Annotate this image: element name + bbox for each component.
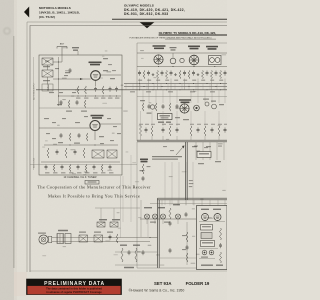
capacitor C13 <box>170 71 172 73</box>
sync section wire <box>140 218 196 220</box>
red print-through tint <box>14 272 27 296</box>
resistor R4 <box>68 100 70 108</box>
interstage labels <box>182 235 186 236</box>
resistor R12 <box>166 71 168 79</box>
left-pointing index triangle <box>24 7 29 18</box>
capacitor C9d <box>93 165 95 167</box>
resistor R1 <box>77 86 79 94</box>
resistor R19c <box>169 103 171 111</box>
note arrow <box>176 147 183 155</box>
power wires <box>199 221 225 223</box>
boost line double 2 <box>137 141 227 143</box>
capacitor C27 <box>142 176 144 178</box>
video vertical stubs from bus <box>142 90 144 103</box>
capacitor C34 <box>185 212 187 214</box>
capacitor C4 <box>76 100 78 102</box>
capacitor C9 <box>45 165 47 167</box>
svg-text:in advance of regular PHOTOFAC: in advance of regular PHOTOFACT Coverage <box>46 290 102 294</box>
tube V1 label RF AMP 6BQ7A <box>89 62 102 64</box>
schematic border inner <box>30 26 227 273</box>
vertical bus pair right <box>185 142 187 200</box>
wire IF rail 2 <box>137 66 227 68</box>
capacitor C18 <box>224 71 226 73</box>
resistor R3 <box>102 86 104 94</box>
audio lower capacitor C41 <box>128 250 130 252</box>
video lower labels row <box>139 124 143 125</box>
B+ bus 3 <box>36 89 227 91</box>
picture tube note text <box>152 156 182 157</box>
tuner bottom labels row <box>45 172 50 173</box>
capacitor C7 <box>56 150 58 152</box>
tuner inner left rail <box>58 57 60 106</box>
wires from tuner down <box>120 176 122 238</box>
video wires vertical lower <box>140 111 142 126</box>
capacitor C16 <box>206 71 208 73</box>
IF transformer T1 can <box>209 56 222 65</box>
capacitor C19b <box>162 104 164 106</box>
resistor R34 <box>186 253 188 262</box>
coil L7 <box>212 104 217 109</box>
horizontal wire below bus <box>150 203 227 205</box>
bus vertical drop wires <box>139 79 141 90</box>
resistor R11 <box>157 71 159 79</box>
tuner misc value labels <box>45 61 49 62</box>
capacitor C14 <box>184 71 186 73</box>
resistor R18 <box>142 103 144 111</box>
header rule <box>112 18 227 20</box>
right mid value labels <box>194 146 198 147</box>
resistor R27 <box>142 164 144 174</box>
vertical wire x131 <box>130 155 132 222</box>
capacitor C23 <box>176 128 178 130</box>
capacitor C22 <box>162 128 164 130</box>
page background paper <box>0 0 227 300</box>
capacitor C9e <box>109 165 111 167</box>
tube V4 label <box>188 46 200 48</box>
audio chain labels <box>79 232 86 233</box>
paper grain overlay <box>0 0 1 1</box>
B+ bus 1 <box>124 83 227 85</box>
B+ bus 2 <box>124 86 227 88</box>
video right labels <box>203 99 209 100</box>
resistor R4b <box>84 100 86 108</box>
capacitor C10 <box>139 71 141 73</box>
resistor R23 <box>190 126 192 136</box>
ground GND3 <box>197 73 199 74</box>
tuner input coil L1 <box>42 58 53 65</box>
audio lower resistor R41 <box>121 248 123 262</box>
power choke <box>201 233 212 239</box>
rectifier tube V7 <box>202 214 209 221</box>
svg-text:The data contained in this fol: The data contained in this folder is pub… <box>46 287 102 291</box>
video section small tube <box>150 105 154 109</box>
resistor R9b <box>69 165 71 172</box>
wire V2 plate right <box>100 123 121 125</box>
schematic border outer <box>27 22 227 272</box>
capacitor C31 <box>153 214 158 219</box>
capacitor C25 <box>211 128 213 130</box>
balun label <box>72 47 79 48</box>
audio label <box>58 230 68 231</box>
sync labels <box>144 207 152 208</box>
audio cap C40 <box>109 235 111 237</box>
bus tick marks <box>125 84 127 90</box>
tuner lower bus wire <box>44 144 118 146</box>
wire V1 grid <box>53 78 91 80</box>
capacitor C30 <box>145 214 150 219</box>
audio lower labels <box>120 245 127 246</box>
video rail wire <box>137 96 227 98</box>
coil L4 label <box>170 47 177 48</box>
rectifier tube V8 <box>214 214 221 221</box>
tube V3 1st video IF <box>154 55 163 64</box>
IF output box <box>85 180 99 184</box>
power supply enclosure <box>197 206 228 270</box>
resistor R13 <box>179 71 181 79</box>
capacitor C15 <box>193 71 195 73</box>
video mid labels <box>140 100 145 101</box>
audio resistor R40 <box>116 234 118 243</box>
power resistor R51 <box>220 252 222 263</box>
tuner mid bus wire <box>59 95 122 97</box>
sync right vertical wires <box>164 162 166 205</box>
capacitor C2b <box>116 87 118 89</box>
resistor R14 <box>188 71 190 79</box>
left column value label <box>140 170 145 171</box>
svg-text:©Howard W. Sams & Co., Inc. 19: ©Howard W. Sams & Co., Inc. 1950 <box>129 288 185 292</box>
tuner bottom bus wire <box>41 161 120 163</box>
antenna symbol <box>57 46 67 48</box>
resistor R33 <box>186 232 188 242</box>
capacitor C1 <box>95 87 97 89</box>
bus junction dots <box>139 83 140 84</box>
coil L6 <box>205 102 209 106</box>
svg-text:FOLDER 19: FOLDER 19 <box>186 281 210 286</box>
resistor R10 <box>143 71 145 79</box>
resistor R15 <box>202 71 204 79</box>
wire V2 grid left <box>39 127 90 129</box>
fine tuning box <box>107 150 117 158</box>
capacitor C19d <box>176 104 178 106</box>
resistor R9 <box>53 165 55 172</box>
resistor R21 <box>151 126 153 136</box>
capacitor C19 <box>148 104 150 106</box>
tuner coil L2 <box>42 70 53 77</box>
trap box 2 <box>110 222 118 227</box>
resistor R17 <box>220 71 222 79</box>
bus labels <box>130 91 135 92</box>
resistor R24 <box>204 126 206 136</box>
svg-text:SET 93A: SET 93A <box>154 281 171 286</box>
resistor R9c <box>85 165 87 172</box>
IF section left border <box>136 43 138 141</box>
tube V2 mixer oscillator <box>90 121 100 131</box>
wire V2 cathode down <box>94 131 96 141</box>
right mid vertical wires <box>195 142 197 160</box>
tube V3 label <box>153 45 166 47</box>
wire balun stub <box>77 51 79 55</box>
audio coupling box 1 <box>79 235 88 242</box>
capacitor C3 <box>60 100 62 102</box>
wire antenna to tuner <box>61 47 63 55</box>
left column components V6 label <box>140 159 148 161</box>
width coil boxed label <box>197 152 211 158</box>
capacitor C9c <box>77 165 79 167</box>
tuner top specks <box>103 58 108 59</box>
resistor R30 stack <box>169 208 171 219</box>
resistor R8 <box>83 148 85 158</box>
IF strip top rail <box>137 52 227 54</box>
left rail wire <box>33 57 35 170</box>
right mid labels <box>192 146 197 147</box>
capacitor C17 <box>215 71 217 73</box>
capacitor C33 <box>176 214 181 219</box>
osc trimmer C5 <box>60 133 62 135</box>
value labels near V1 <box>65 72 70 73</box>
tube V5 label VIDEO AMP <box>179 99 191 101</box>
power boxed label 2 <box>201 241 215 247</box>
capacitor C21 <box>145 128 147 130</box>
capacitor C1a <box>69 68 71 70</box>
coil L5 <box>180 58 184 62</box>
vertical bus pair left <box>157 198 159 268</box>
filter cap C50 <box>202 250 207 255</box>
resistor R19 <box>155 103 157 111</box>
resistor R20 <box>140 126 142 136</box>
sound takeoff sublabels <box>158 122 164 123</box>
output transformer T2 <box>57 234 64 244</box>
filter cap C51 <box>209 250 214 255</box>
capacitor C9b <box>61 165 63 167</box>
ground GND1 <box>152 73 154 74</box>
power boxed label 1 <box>201 225 213 231</box>
coil L4 <box>170 58 176 64</box>
resistor R6 <box>47 148 49 158</box>
tuner resistor labels row <box>76 98 81 99</box>
interstage wire <box>160 257 197 259</box>
power resistor R50 <box>220 228 222 240</box>
audio coupling box 2 <box>94 235 103 242</box>
speaker <box>39 235 48 244</box>
IF section top rail <box>137 42 227 44</box>
horizontal bus pair <box>158 197 228 199</box>
capacitor C26 <box>224 128 226 130</box>
scan texture specks <box>99 78 103 79</box>
preliminary data box <box>26 279 122 295</box>
preliminary data red panel <box>27 286 120 294</box>
sound takeoff boxed label <box>158 114 173 120</box>
tube V5 video amplifier <box>180 104 189 113</box>
audio lower wires <box>115 251 158 253</box>
tuner inner partition wire <box>39 107 122 109</box>
resistor R5b <box>86 133 88 141</box>
capacitor C2 <box>109 87 111 89</box>
capacitor C8 <box>74 150 76 152</box>
VHF tuner enclosure box <box>39 55 122 175</box>
rectifier tube labels <box>201 209 209 210</box>
resistor R9d <box>101 165 103 172</box>
ground GND2 <box>175 73 177 74</box>
speaker label <box>38 233 46 234</box>
value labels under V2 <box>58 142 63 143</box>
capacitor C11 <box>148 71 150 73</box>
resistor R22 <box>169 126 171 136</box>
power cap C52 <box>220 243 222 245</box>
bottom connecting wire <box>137 267 197 269</box>
tiny value labels tuner mid <box>57 104 62 105</box>
electrolytic C20 <box>194 105 200 111</box>
vertical wire to power box <box>186 222 188 265</box>
resistor R7 <box>65 148 67 158</box>
trap box 1 <box>97 222 105 227</box>
boost line double 1 <box>137 139 227 141</box>
resistor R25 <box>218 126 220 136</box>
wire V1 plate <box>100 74 121 76</box>
resistor R2 <box>85 86 87 94</box>
tuner coil labels <box>43 66 50 67</box>
IF row value labels <box>138 80 142 81</box>
bus drop stubs <box>161 200 163 206</box>
page fold shadow line <box>13 36 15 268</box>
left margin strip darker paper <box>0 0 14 300</box>
resistor R5 <box>69 133 71 141</box>
audio lower resistor R42 <box>135 248 137 262</box>
down-pointing triangle marker <box>140 22 155 28</box>
capacitor C36 <box>169 248 171 250</box>
wire V1 cathode down <box>95 80 97 86</box>
trap wires <box>95 207 140 209</box>
audio lower capacitor C42 <box>142 250 144 252</box>
oscillator slug box <box>92 150 104 158</box>
sync left vertical wires <box>140 200 142 237</box>
resistor R16 <box>211 71 213 79</box>
tuner coil L3 <box>42 84 53 91</box>
schematic border bottom <box>30 270 227 272</box>
power labels bottom <box>201 257 208 258</box>
AGC horizontal wire <box>30 164 137 166</box>
capacitor C35 <box>186 245 188 247</box>
trap cluster labels <box>99 219 107 220</box>
IF transformer T1 label <box>206 46 218 48</box>
capacitor C32 <box>161 214 166 219</box>
capacitor C12 <box>161 71 163 73</box>
tube V4 2nd video IF <box>189 55 199 65</box>
mid column wire <box>136 142 138 268</box>
audio wires <box>52 237 150 239</box>
tube V1 RF amplifier <box>91 71 101 81</box>
tube V2 label MIXER OSC 6J6 <box>91 115 104 117</box>
capacitor C6 <box>78 133 80 135</box>
capacitor C24 <box>197 128 199 130</box>
wire coil column <box>47 65 49 70</box>
